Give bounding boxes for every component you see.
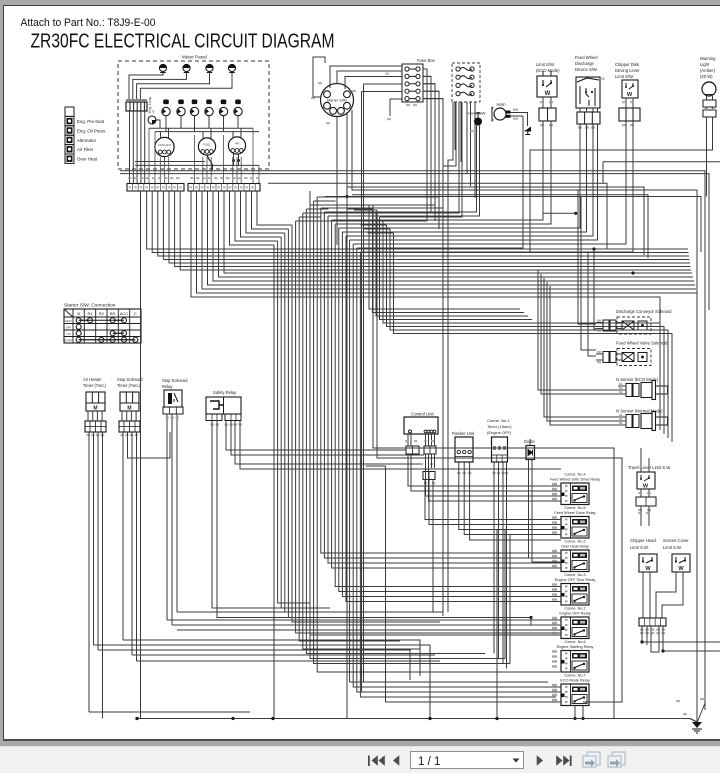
- svg-text:Conne. No.7: Conne. No.7: [564, 674, 585, 678]
- svg-text:Conne. No.3: Conne. No.3: [564, 573, 585, 577]
- svg-text:W: W: [545, 91, 551, 97]
- svg-text:W: W: [645, 566, 651, 572]
- svg-text:FUEL: FUEL: [203, 143, 211, 147]
- svg-text:1 / 1: 1 / 1: [418, 756, 440, 768]
- svg-text:g: g: [153, 109, 155, 113]
- svg-text:Control Unit: Control Unit: [411, 412, 434, 417]
- svg-text:Engine Starting Relay: Engine Starting Relay: [557, 645, 594, 649]
- svg-text:30: 30: [601, 77, 605, 81]
- svg-text:Stop Solenoid: Stop Solenoid: [162, 378, 188, 383]
- svg-text:Conne. No.2: Conne. No.2: [564, 607, 585, 611]
- svg-text:Air Filter: Air Filter: [77, 147, 94, 152]
- svg-text:Fuse Box: Fuse Box: [417, 58, 436, 63]
- svg-text:W: W: [678, 566, 684, 572]
- svg-text:Engine OFF Time Relay: Engine OFF Time Relay: [555, 578, 596, 582]
- svg-text:Driving Lever: Driving Lever: [615, 68, 640, 73]
- svg-text:Conne. No.6: Conne. No.6: [564, 640, 585, 644]
- svg-text:Conne. No.4: Conne. No.4: [564, 473, 585, 477]
- svg-text:Light: Light: [700, 62, 710, 67]
- svg-text:M: M: [93, 406, 97, 412]
- svg-text:N Sensor (Normal Mode): N Sensor (Normal Mode): [616, 409, 663, 414]
- svg-text:Eng. Pre-heat: Eng. Pre-heat: [77, 119, 105, 124]
- svg-text:COOLANT: COOLANT: [158, 143, 172, 147]
- svg-text:W: W: [643, 484, 649, 490]
- svg-text:Conne. No.5: Conne. No.5: [564, 506, 585, 510]
- svg-text:Safety Relay: Safety Relay: [213, 390, 237, 395]
- svg-text:Travel Lever Limit S.W.: Travel Lever Limit S.W.: [628, 465, 671, 470]
- svg-text:Conne. No.2: Conne. No.2: [564, 540, 585, 544]
- svg-text:Starter S/W. Connection: Starter S/W. Connection: [64, 303, 116, 309]
- svg-text:Engine OFF Relay: Engine OFF Relay: [559, 612, 590, 616]
- svg-text:Device S/W.: Device S/W.: [575, 67, 598, 72]
- svg-text:ACC: ACC: [120, 311, 129, 316]
- svg-text:Eng. Oil Press.: Eng. Oil Press.: [77, 128, 106, 133]
- svg-text:Over Heat: Over Heat: [77, 157, 98, 162]
- svg-text:Horn: Horn: [497, 102, 507, 107]
- svg-text:Chipper Disk: Chipper Disk: [615, 62, 640, 67]
- svg-text:(Amber): (Amber): [700, 68, 716, 73]
- svg-text:Feed Wheel Drive Relay: Feed Wheel Drive Relay: [554, 511, 595, 515]
- svg-text:Conne. No.1: Conne. No.1: [487, 418, 510, 423]
- svg-text:HEAT: HEAT: [65, 319, 72, 323]
- svg-text:Discharge: Discharge: [575, 61, 595, 66]
- svg-text:ON: ON: [67, 332, 71, 336]
- svg-text:R2: R2: [99, 311, 105, 316]
- svg-text:ZR30FC ELECTRICAL CIRCUIT DIAG: ZR30FC ELECTRICAL CIRCUIT DIAGRAM: [31, 31, 335, 53]
- svg-text:ECO Mode Relay: ECO Mode Relay: [560, 679, 590, 683]
- svg-text:BR: BR: [110, 311, 116, 316]
- svg-text:Starter S/W.: Starter S/W.: [327, 98, 348, 103]
- svg-text:Alternator: Alternator: [77, 138, 97, 143]
- svg-text:Feed Wheel S/W. Drive Relay: Feed Wheel S/W. Drive Relay: [550, 478, 600, 482]
- svg-text:HR: HR: [235, 142, 239, 146]
- svg-text:Limit S/W.: Limit S/W.: [536, 62, 555, 67]
- svg-text:M: M: [127, 406, 131, 412]
- svg-text:Stop Solenoid: Stop Solenoid: [117, 377, 143, 382]
- svg-text:Flasher Unit: Flasher Unit: [452, 431, 475, 436]
- svg-text:Relay: Relay: [162, 384, 173, 389]
- svg-text:Discharge Conveyor Solenoid: Discharge Conveyor Solenoid: [616, 309, 672, 314]
- svg-text:(ECO Mode): (ECO Mode): [536, 68, 560, 73]
- svg-text:Chipper Head: Chipper Head: [630, 538, 657, 543]
- svg-text:Limit S/W.: Limit S/W.: [615, 74, 634, 79]
- svg-text:C: C: [134, 311, 137, 316]
- svg-text:Feed Wheel: Feed Wheel: [575, 55, 598, 60]
- svg-text:Attach to Part No.: T8J9-E-00: Attach to Part No.: T8J9-E-00: [21, 17, 156, 29]
- svg-text:Screen Cover: Screen Cover: [663, 538, 689, 543]
- svg-text:W: W: [627, 92, 633, 98]
- svg-text:Timer (7sec): Timer (7sec): [83, 383, 106, 388]
- svg-text:Timer (7sec): Timer (7sec): [117, 383, 140, 388]
- svg-text:R1: R1: [87, 311, 93, 316]
- svg-text:B: B: [77, 311, 80, 316]
- svg-text:Limit S.W.: Limit S.W.: [663, 545, 682, 550]
- svg-text:(Engine OFF): (Engine OFF): [487, 430, 512, 435]
- svg-text:Over Heat Relay: Over Heat Relay: [561, 545, 589, 549]
- svg-text:(20 W): (20 W): [700, 74, 713, 79]
- svg-text:Limit S.W.: Limit S.W.: [630, 545, 649, 550]
- svg-text:Timer (15sec): Timer (15sec): [487, 424, 512, 429]
- svg-text:30: 30: [385, 72, 389, 76]
- svg-text:Eng. Lamp: Eng. Lamp: [148, 96, 152, 113]
- svg-text:Air Heater: Air Heater: [83, 377, 102, 382]
- svg-text:START: START: [64, 338, 73, 342]
- svg-text:Warning: Warning: [700, 56, 716, 61]
- svg-text:Meter Panel: Meter Panel: [182, 55, 207, 60]
- svg-text:OFF: OFF: [66, 325, 72, 329]
